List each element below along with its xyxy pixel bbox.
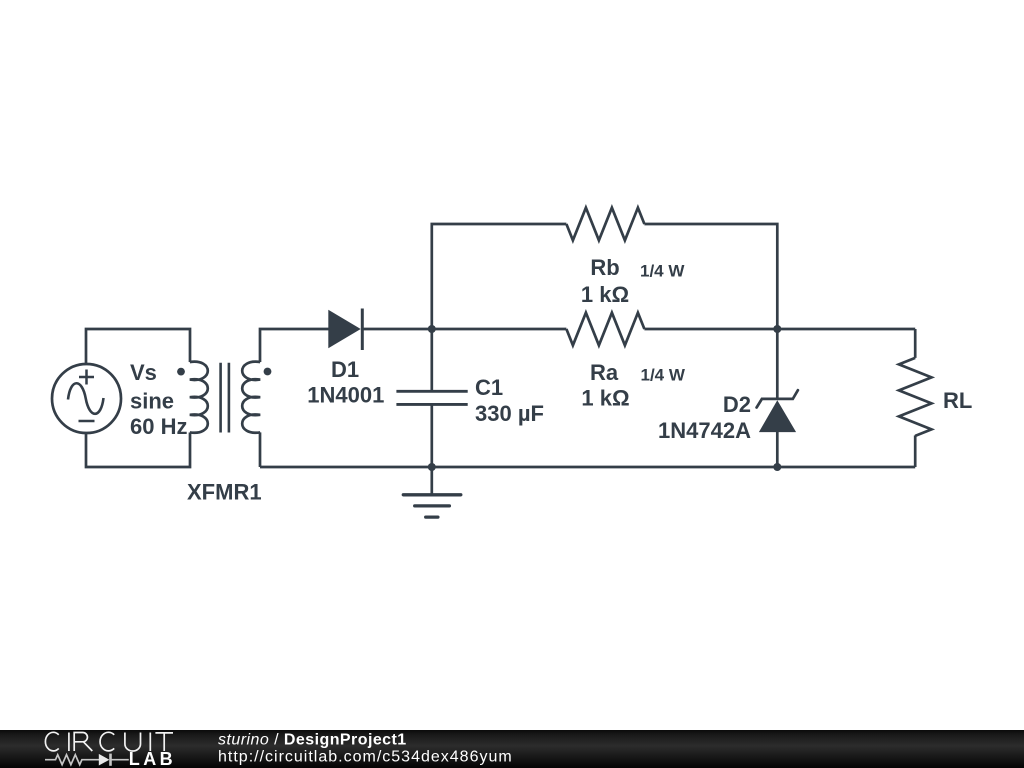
svg-text:1N4742A: 1N4742A bbox=[658, 418, 751, 443]
wire top loop left vertical bbox=[432, 224, 567, 329]
transformer dot primary bbox=[177, 368, 185, 376]
diode D1 triangle bbox=[328, 310, 360, 348]
sine wave of Vs bbox=[68, 383, 104, 414]
zener D2 bar bbox=[757, 390, 798, 407]
svg-text:sine: sine bbox=[130, 389, 174, 414]
wire D2 bottom lead bbox=[776, 432, 779, 467]
svg-text:XFMR1: XFMR1 bbox=[187, 480, 262, 505]
svg-text:LAB: LAB bbox=[129, 749, 176, 768]
svg-text:Rb: Rb bbox=[590, 255, 619, 280]
wire RL top lead bbox=[914, 329, 917, 358]
wire source bottom loop bbox=[86, 433, 190, 468]
label C1 330 uF bbox=[475, 375, 544, 426]
junction node B (top of D2) bbox=[773, 325, 781, 333]
label Rb value bbox=[581, 255, 685, 307]
svg-text:1/4 W: 1/4 W bbox=[641, 366, 686, 385]
wire RL bottom lead bbox=[914, 435, 917, 467]
logo diode triangle bbox=[99, 754, 110, 766]
svg-text:60 Hz: 60 Hz bbox=[130, 414, 187, 439]
svg-text:1/4 W: 1/4 W bbox=[640, 262, 685, 281]
wire secondary top lead bbox=[260, 329, 329, 362]
svg-text:sturino / DesignProject1: sturino / DesignProject1 bbox=[218, 732, 407, 749]
svg-text:D1: D1 bbox=[331, 357, 359, 382]
svg-text:Vs: Vs bbox=[130, 360, 157, 385]
voltage source Vs circle bbox=[52, 364, 121, 433]
minus sign of Vs bbox=[79, 420, 95, 423]
svg-text:C1: C1 bbox=[475, 375, 503, 400]
transformer XFMR1 primary coil bbox=[190, 362, 208, 433]
label D2 1N4742A bbox=[658, 392, 751, 443]
svg-text:RL: RL bbox=[943, 388, 972, 413]
footer bar bbox=[0, 730, 1024, 768]
resistor Ra zigzag bbox=[566, 313, 644, 346]
label Ra value bbox=[581, 360, 685, 411]
svg-text:http://circuitlab.com/c534dex4: http://circuitlab.com/c534dex486yum bbox=[218, 749, 513, 766]
diode D1 cathode bar bbox=[361, 309, 364, 351]
logo CIRCUIT wordmark bbox=[45, 732, 173, 751]
wire source top loop bbox=[86, 329, 190, 365]
svg-text:Ra: Ra bbox=[590, 360, 619, 385]
label D1 1N4001 bbox=[307, 357, 384, 408]
transformer XFMR1 secondary coil bbox=[242, 362, 260, 433]
logo resistor-diode art bbox=[45, 754, 129, 766]
wire D2 top lead bbox=[776, 329, 779, 400]
ground bars bbox=[403, 495, 461, 517]
wire C1 top lead bbox=[430, 329, 433, 391]
junction node ground rail at C1 bbox=[428, 463, 436, 471]
svg-text:1N4001: 1N4001 bbox=[307, 383, 384, 408]
plus sign of Vs bbox=[79, 370, 94, 385]
junction node ground rail at D2 bbox=[773, 463, 781, 471]
transformer XFMR1 core lines bbox=[221, 363, 229, 433]
wire C1 bottom lead bbox=[430, 405, 433, 467]
zener D2 triangle bbox=[759, 400, 796, 432]
svg-text:D2: D2 bbox=[723, 392, 751, 417]
ground stem bbox=[430, 467, 433, 495]
resistor Rb zigzag bbox=[566, 208, 644, 241]
wire secondary bottom lead bbox=[259, 432, 262, 467]
wire mid rail right bbox=[644, 328, 915, 331]
capacitor C1 plates bbox=[396, 391, 467, 404]
label Vs sine 60 Hz bbox=[130, 360, 187, 439]
junction node A (top of C1) bbox=[428, 325, 436, 333]
transformer dot secondary bbox=[264, 368, 272, 376]
svg-text:1 kΩ: 1 kΩ bbox=[581, 386, 629, 411]
svg-text:330 µF: 330 µF bbox=[475, 401, 544, 426]
wire D1 to node A bbox=[362, 328, 566, 331]
resistor RL zigzag bbox=[899, 358, 932, 436]
svg-text:1 kΩ: 1 kΩ bbox=[581, 282, 629, 307]
wire bottom rail bbox=[260, 466, 915, 469]
wire top loop right vertical bbox=[644, 224, 777, 329]
